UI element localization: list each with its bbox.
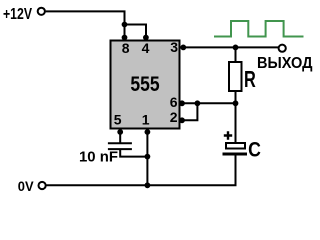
svg-text:5: 5 — [114, 112, 122, 128]
svg-text:0V: 0V — [18, 178, 34, 194]
svg-text:10 nF: 10 nF — [79, 148, 118, 165]
svg-text:3: 3 — [170, 39, 178, 55]
svg-text:555: 555 — [130, 73, 159, 96]
svg-text:8: 8 — [122, 40, 130, 56]
svg-text:4: 4 — [142, 40, 150, 56]
svg-text:1: 1 — [142, 112, 150, 128]
svg-text:ВЫХОД: ВЫХОД — [257, 55, 313, 72]
svg-text:C: C — [248, 139, 261, 162]
svg-text:+12V: +12V — [3, 6, 32, 23]
svg-text:6: 6 — [170, 94, 178, 110]
svg-text:R: R — [244, 66, 256, 92]
svg-text:2: 2 — [170, 109, 178, 125]
